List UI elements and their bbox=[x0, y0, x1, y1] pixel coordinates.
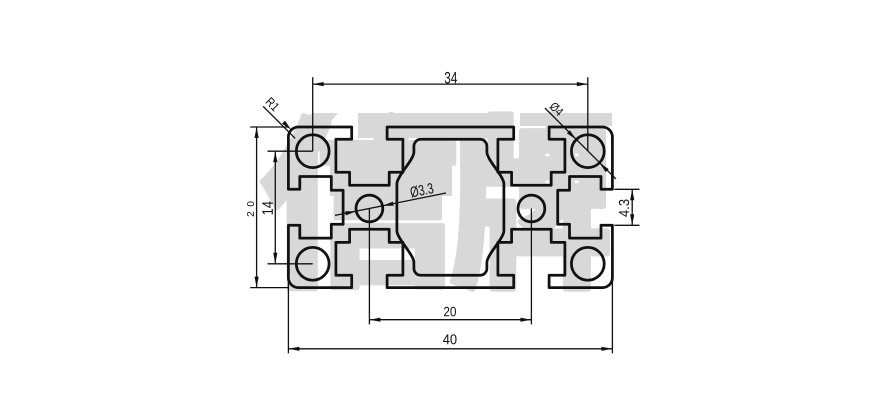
corner hole top-right bbox=[571, 135, 604, 168]
dimension 34 (top, between corner-hole centres) bbox=[312, 77, 314, 151]
watermark stroke patch c bbox=[520, 113, 612, 126]
dimension 20 (bottom, between centre holes) bbox=[368, 209, 370, 325]
watermark stroke patch d bbox=[296, 113, 338, 132]
watermark character 1 bbox=[262, 114, 454, 289]
corner hole bottom-right bbox=[571, 247, 604, 280]
leader R1 (corner radius) bbox=[263, 106, 295, 138]
dimension 4.3 (right slot opening) bbox=[614, 188, 639, 190]
centre hole 2 bbox=[518, 195, 545, 222]
leader diameter 3.3 (centre hole) bbox=[335, 193, 446, 215]
watermark character 2 bbox=[453, 114, 607, 289]
dimension 14 (left, corner-hole spacing) bbox=[268, 150, 313, 152]
leader diameter 4 (corner hole) bbox=[545, 108, 616, 179]
dimension 20 (left, overall height) bbox=[250, 126, 288, 128]
corner hole top-left bbox=[296, 135, 329, 168]
watermark stroke patch b bbox=[330, 160, 452, 196]
centre hole 1 bbox=[356, 195, 383, 222]
profile central cavity bbox=[397, 139, 504, 275]
dimension 40 (bottom, overall width) bbox=[287, 278, 289, 354]
watermark stroke patch a bbox=[358, 113, 512, 138]
corner hole bottom-left bbox=[296, 247, 329, 280]
profile outer outline bbox=[288, 127, 612, 288]
